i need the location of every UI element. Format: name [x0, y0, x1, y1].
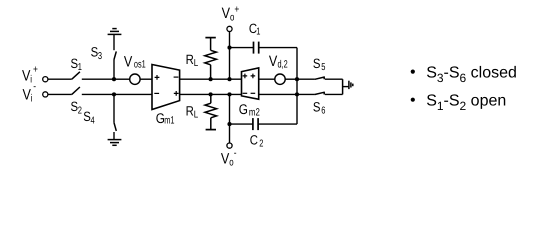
svg-text:+: + — [234, 3, 239, 15]
ground top (inverted) — [108, 29, 122, 35]
svg-text:6: 6 — [321, 106, 326, 117]
switch S6 (closed blade) — [315, 92, 324, 95]
wire Gm1 top output rail — [180, 78, 242, 80]
switch S4 (closed blade) — [114, 122, 116, 131]
svg-text:S: S — [91, 45, 99, 60]
svg-text:G: G — [156, 110, 165, 126]
wire Vi- to S2 — [48, 93, 72, 95]
svg-text:3: 3 — [98, 51, 103, 62]
svg-text:V: V — [22, 67, 30, 84]
svg-text:V: V — [222, 5, 230, 22]
label RL top — [186, 52, 194, 67]
supply bar above RL top — [205, 37, 215, 39]
svg-text:G: G — [239, 101, 248, 117]
node RL-bottom junction dot — [209, 92, 213, 96]
label Gm2 — [239, 101, 248, 117]
switch S2 (open blade) — [72, 87, 80, 94]
wire Vos1 to Gm1 input — [140, 78, 152, 80]
supply bar below RL bottom — [206, 129, 216, 131]
node RL-top junction dot — [209, 77, 213, 81]
node C junction dot — [295, 77, 299, 81]
svg-text:V: V — [269, 53, 277, 70]
node A junction dot — [112, 77, 116, 81]
wire Vo- stub — [229, 94, 231, 143]
label Gm1 — [156, 110, 165, 126]
svg-text:L: L — [194, 58, 199, 69]
switch S3 (closed blade) — [114, 51, 116, 60]
wire C2 left — [230, 123, 253, 125]
wire S4 to bottom ground — [113, 132, 115, 140]
svg-text:1: 1 — [78, 62, 83, 73]
svg-text:R: R — [186, 52, 194, 67]
wire Vo+ stub — [229, 32, 231, 80]
svg-text:S1-S2 open: S1-S2 open — [426, 92, 506, 113]
svg-text:1: 1 — [256, 27, 261, 38]
wire node C to S5 — [297, 78, 315, 80]
node Vo+ stub junction dot — [227, 77, 231, 81]
bullet 1 marker — [411, 70, 415, 74]
node C1 tap junction dot — [227, 46, 231, 50]
wire Vd2 to node C — [285, 78, 297, 80]
label S2 — [71, 99, 79, 114]
svg-text:V: V — [221, 150, 229, 167]
svg-text:S3-S6 closed: S3-S6 closed — [426, 64, 517, 85]
label C2 — [250, 132, 258, 147]
svg-text:4: 4 — [91, 115, 96, 126]
source Vos1 — [130, 74, 140, 84]
bullet 2 marker — [411, 98, 415, 102]
node Vi- input terminal — [43, 92, 48, 97]
Gm2 pin + (left top) — [243, 74, 248, 79]
svg-text:S: S — [313, 100, 321, 115]
svg-text:S: S — [71, 99, 79, 114]
svg-text:2: 2 — [78, 105, 83, 116]
node C2 tap junction dot — [227, 122, 231, 126]
wire Vi+ to S1 — [48, 78, 72, 80]
svg-text:S: S — [71, 56, 79, 71]
Gm2 pin + (right top) — [251, 74, 256, 79]
svg-text:C: C — [250, 132, 258, 147]
wire S1 to node A — [82, 78, 114, 80]
label Vo+ — [222, 5, 230, 22]
svg-text:V: V — [124, 53, 132, 70]
svg-text:R: R — [186, 104, 194, 119]
node Vo+ terminal — [227, 26, 232, 31]
svg-text:5: 5 — [321, 62, 326, 73]
label S4 — [83, 109, 91, 124]
wire Gm2 bottom output to node D — [259, 93, 297, 95]
svg-text:d,2: d,2 — [278, 59, 288, 71]
svg-text:m1: m1 — [164, 115, 174, 127]
svg-text:S: S — [83, 109, 91, 124]
svg-text:2: 2 — [259, 138, 264, 149]
node D junction dot — [295, 92, 299, 96]
node Vi+ input terminal — [43, 77, 48, 82]
ground bottom — [108, 140, 122, 146]
label S1 — [71, 56, 79, 71]
wire S3 to top ground — [113, 34, 115, 50]
Gm1 pin - (in bottom) — [154, 92, 159, 94]
label Vo- — [221, 150, 229, 167]
wire C1 down to node C — [296, 48, 298, 125]
wire C1 right — [259, 47, 297, 49]
wire Gm1 bottom output rail — [180, 93, 242, 95]
label S5 — [313, 56, 321, 71]
svg-text:i: i — [30, 74, 32, 86]
svg-text:i: i — [31, 93, 33, 105]
svg-text:+: + — [33, 63, 38, 75]
wire C1 left — [230, 47, 254, 49]
node Vo- terminal — [227, 143, 232, 148]
wire node D to S6 — [297, 93, 315, 95]
svg-text:os1: os1 — [134, 59, 146, 71]
Gm1 pin + (in top) — [155, 75, 160, 80]
svg-text:L: L — [194, 109, 199, 120]
ground right (rotated) — [349, 81, 353, 89]
Gm2 pin - (left bottom) — [243, 92, 248, 94]
switch S5 (closed blade) — [315, 76, 324, 79]
label Vd,2 — [269, 53, 277, 70]
resistor RL (bottom) — [205, 94, 217, 129]
label S6 — [313, 100, 321, 115]
label S3 — [91, 45, 99, 60]
svg-text:m2: m2 — [249, 106, 260, 118]
svg-text:-: - — [33, 81, 36, 93]
svg-text:-: - — [234, 147, 237, 159]
wire node B down to S4 — [113, 94, 115, 122]
wire right rail to ground — [343, 86, 349, 88]
Gm1 pin - (out top) — [174, 76, 179, 78]
source Vd2 — [275, 74, 285, 84]
Gm1 pin + (out bottom) — [174, 91, 179, 96]
op-amp Gm2 (transconductor trapezoid) — [242, 68, 259, 99]
label RL bottom — [186, 104, 194, 119]
wire node A up to S3 — [113, 60, 115, 79]
wire Gm2 top output to Vd2 — [259, 78, 275, 80]
node B junction dot — [112, 92, 116, 96]
node Vo- stub junction dot — [227, 92, 231, 96]
label C1 — [249, 21, 257, 36]
label Vos1 — [124, 53, 132, 70]
wire S6 to right rail — [325, 93, 343, 95]
resistor RL (top) — [205, 38, 217, 80]
capacitor C2 — [253, 118, 258, 130]
op-amp Gm1 (transconductor trapezoid) — [152, 65, 180, 110]
Gm2 pin - (right bottom) — [251, 92, 256, 94]
wire S2 to node B — [82, 93, 152, 95]
label Vi+ — [22, 67, 30, 84]
wire right rail vertical — [342, 79, 344, 94]
wire S5 to right rail — [325, 78, 343, 80]
wire node A to Vos1 — [114, 78, 130, 80]
capacitor C1 — [254, 42, 259, 54]
label Vi- — [23, 86, 31, 103]
switch S1 (open blade) — [72, 72, 80, 79]
wire C2 right — [259, 123, 297, 125]
svg-text:V: V — [23, 86, 31, 103]
svg-text:S: S — [313, 56, 321, 71]
